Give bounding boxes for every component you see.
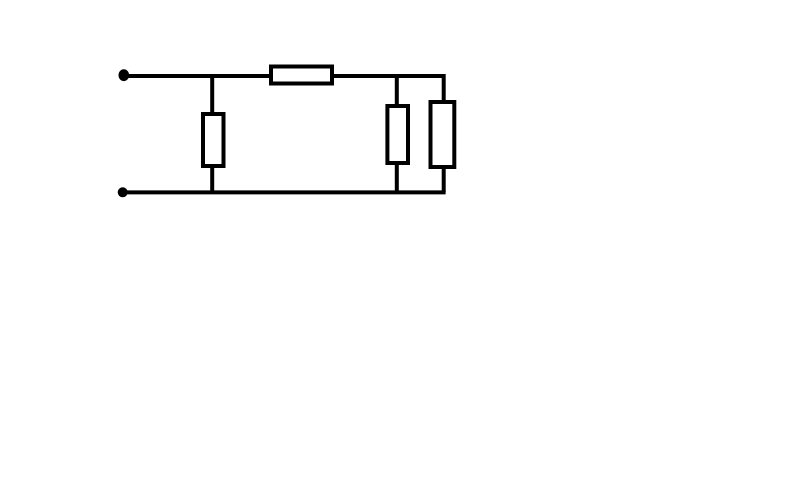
node B: bottom-left input terminal dot xyxy=(118,187,128,197)
resistor R4 (right shunt, vertical) xyxy=(431,102,455,167)
node A: top-left input terminal dot xyxy=(119,69,130,81)
wire: top rail from node A to series resistor R2 xyxy=(124,74,275,78)
resistor R2 (series, horizontal) xyxy=(271,67,332,84)
wire: top rail from R2 to top-right corner down to R4 top xyxy=(329,76,444,104)
wire: bottom lead of shunt resistor R4 xyxy=(442,166,446,192)
wire: bottom lead of shunt resistor R3 xyxy=(395,162,399,192)
resistor R3 (middle shunt, vertical) xyxy=(387,106,408,163)
wire: bottom lead of shunt resistor R1 xyxy=(210,164,214,192)
wire: top lead of shunt resistor R3 xyxy=(395,74,399,108)
resistor R1 (left shunt, vertical) xyxy=(203,114,224,166)
wire: bottom rail from node B to R4 bottom xyxy=(123,190,446,194)
wire: top lead of shunt resistor R1 xyxy=(210,74,214,116)
